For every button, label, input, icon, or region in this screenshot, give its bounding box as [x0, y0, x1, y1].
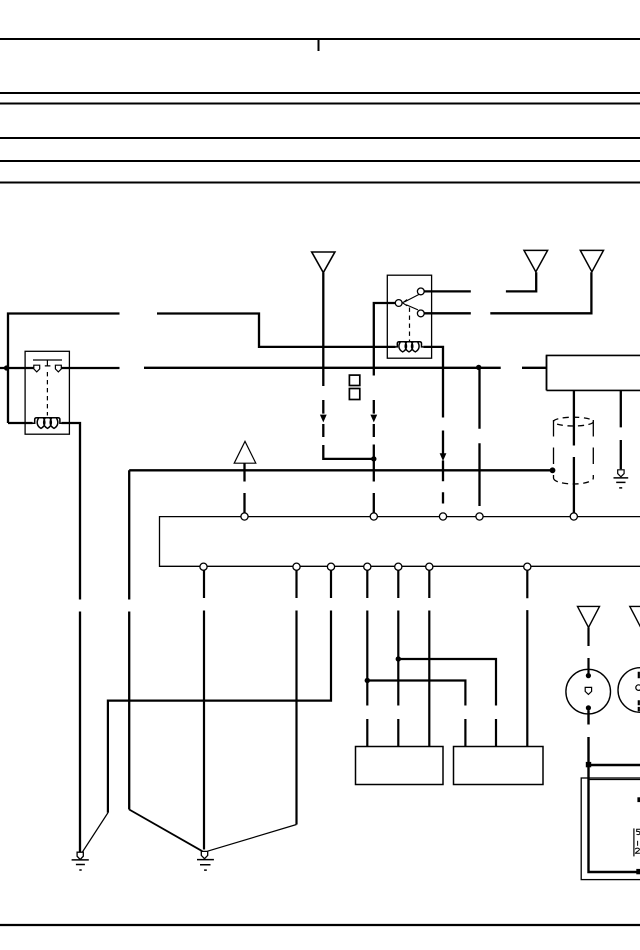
- bottom border rule: [0, 924, 640, 926]
- ground G3 terminal: [618, 470, 624, 477]
- connector C1 top terminal b: [370, 513, 377, 520]
- antenna symbol T2: [580, 250, 603, 271]
- arrow marker on wire x=323: [320, 415, 327, 423]
- speaker SP1 top contact dot: [586, 673, 591, 678]
- unit U2 box (radio): [547, 355, 640, 390]
- warning triangle symbol: [234, 441, 256, 463]
- wire: K1 coil right lead going down: [62, 423, 81, 852]
- wire: branch from j to amp box A2: [398, 659, 496, 747]
- connector C1 bottom terminal f: [200, 563, 207, 570]
- connector C1 top terminal e: [570, 513, 577, 520]
- power rail bus 3: [0, 103, 640, 105]
- wire: diagonal from g to ground G2: [208, 825, 297, 852]
- power rail bus 4: [0, 137, 640, 139]
- node: junction square at (588.5,765): [586, 762, 591, 767]
- fuse block square 2: [349, 389, 359, 400]
- relay K1 contact terminal left: [34, 365, 40, 372]
- power rail bus 1: [0, 38, 640, 40]
- unit U3 outer box: [581, 778, 640, 880]
- connector C1 bottom terminal j: [395, 563, 402, 570]
- connector C1 top terminal d: [476, 513, 483, 520]
- antenna symbol T4 (tweeter feed): [578, 606, 600, 627]
- ground G1 terminal: [77, 852, 83, 859]
- wire: branch right at y=765: [589, 764, 640, 766]
- arrow marker on wire x=443: [440, 453, 447, 461]
- amp box A1: [356, 747, 444, 785]
- wire: stub under warning triangle: [243, 463, 245, 513]
- fuse block square 1: [349, 375, 359, 385]
- wire: horizontal net from relay K1 to unit U2: [144, 367, 547, 369]
- wire: branch from i to amp box A2: [367, 681, 465, 747]
- node: junction dot on bus wire at left: [4, 365, 9, 370]
- wire: feed to relay K2 coil (steps down at x=259): [8, 314, 396, 424]
- arrow marker on wire x=373.8: [370, 415, 377, 423]
- relay K2 terminal circle common: [395, 300, 402, 307]
- pin number 5: [637, 829, 640, 834]
- connector C1 long box: [160, 517, 640, 567]
- connector C1 bottom terminal l: [524, 563, 531, 570]
- pin number 1: [637, 841, 639, 846]
- relay K2 box: [387, 275, 431, 358]
- relay K2 terminal circle top (NO): [417, 288, 424, 295]
- pin number 2: [635, 848, 640, 853]
- relay K2 coil: [395, 342, 423, 352]
- unit U3 inner panel edge: [590, 779, 640, 781]
- speaker SP1 bottom contact dot: [586, 705, 591, 710]
- antenna symbol T1: [524, 250, 548, 271]
- connector C1 top terminal a: [241, 513, 248, 520]
- wire: antenna T3 down-lead: [323, 273, 374, 459]
- relay K2 plunger dashed link: [409, 308, 411, 342]
- node: junction dot at (373.8,458.9): [371, 456, 376, 461]
- antenna symbol T5 (partial at edge): [630, 606, 640, 627]
- amp box A2: [454, 747, 544, 785]
- relay K1 contact terminal right: [55, 365, 61, 372]
- node: junction dot at condenser: [550, 467, 556, 473]
- ground G1 symbol bars: [72, 860, 89, 870]
- connector C1 bottom terminal i: [364, 563, 371, 570]
- wire: U2 output through condenser: [573, 390, 575, 513]
- wire: terminal i to amp box A1: [366, 570, 368, 746]
- node: junction dot on wire j: [396, 656, 401, 661]
- power rail bus 2: [0, 92, 640, 94]
- speaker SP2 (partial at edge): [618, 668, 640, 713]
- speaker SP1 center terminal: [585, 687, 591, 694]
- wire: K2 common lead down to connector: [374, 303, 396, 513]
- wire: K2 NC terminal to antenna T2: [424, 272, 591, 313]
- speaker SP1: [566, 669, 611, 714]
- wire: terminal k to amp box A1: [428, 570, 430, 746]
- wire stub on bus 1: [318, 39, 320, 51]
- wire: vertical drop from y=470 corner at x=129: [128, 470, 130, 809]
- wire: K2 NO terminal to antenna T1: [424, 272, 536, 291]
- wire: T4 to speaker SP1: [587, 628, 589, 674]
- wire: K1 coil left lead: [8, 422, 33, 424]
- speaker SP2 center terminal: [636, 685, 640, 691]
- ground G2 symbol bars: [197, 860, 214, 871]
- node: junction dot at x=478.5: [476, 365, 481, 370]
- relay K2 switch blade: [403, 294, 420, 310]
- unit U3 connector block: [637, 797, 640, 802]
- power rail bus 5: [0, 160, 640, 162]
- relay K1 plunger dashed link: [46, 372, 48, 416]
- relay K1 coil: [33, 418, 62, 429]
- wire: diagonal into ground G1: [82, 813, 108, 852]
- relay K2 terminal circle bottom (NC): [417, 310, 424, 317]
- connector C1 bottom terminal k: [426, 563, 433, 570]
- wire: diagonal from x=129 into ground G2: [129, 810, 202, 852]
- wire: long horizontal net y=470: [129, 469, 552, 471]
- wire: SP1 return down and around unit U3: [589, 711, 640, 873]
- wire: terminal j to amp box A1: [397, 570, 399, 746]
- node: junction square at wire end (638,872): [636, 869, 640, 874]
- wire: terminal h routed left and down: [108, 570, 331, 813]
- wire: U2 ground lead: [620, 390, 622, 469]
- unit U3 pin strip edge: [633, 828, 635, 856]
- relay K1 box: [25, 351, 69, 434]
- power rail bus 6: [0, 182, 640, 184]
- node: junction dot on wire i: [365, 678, 370, 683]
- connector C1 top terminal c: [439, 513, 446, 520]
- connector C1 bottom terminal g: [293, 563, 300, 570]
- wire: terminal f to ground G2: [203, 570, 205, 849]
- wire: dropper from junction x=479.5: [478, 369, 480, 507]
- wire: terminal g down with diagonal to G2: [295, 570, 297, 824]
- ground G3 symbol bars: [614, 478, 629, 488]
- wire: SP2 feed dashes: [638, 672, 640, 712]
- noise condenser dashed cylinder: [554, 417, 594, 426]
- wire: terminal l to amp box A2: [526, 571, 528, 747]
- wire: K2 coil right lead down to connector: [423, 347, 443, 504]
- wire: horizontal net into relay K1 contact (left segment): [0, 367, 120, 369]
- connector C1 bottom terminal h: [327, 563, 334, 570]
- ground G2 terminal: [201, 851, 207, 858]
- relay K1 contact bar: [33, 360, 62, 366]
- antenna symbol T3 (mast): [312, 252, 335, 273]
